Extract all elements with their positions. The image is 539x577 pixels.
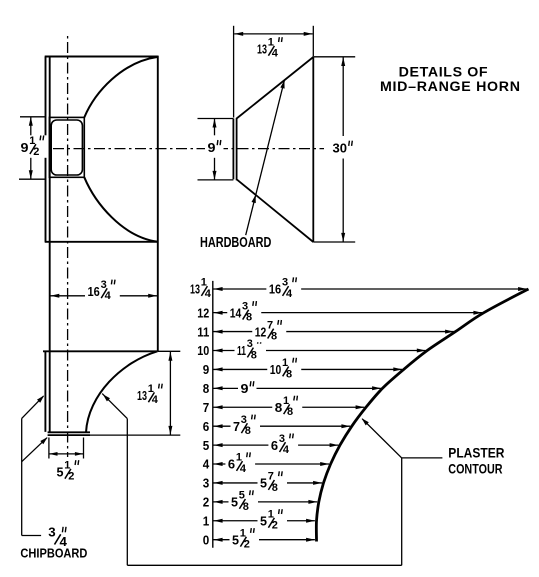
chipboard leader vertical xyxy=(21,418,23,535)
svg-text:11: 11 xyxy=(237,343,246,358)
svg-text:4: 4 xyxy=(272,48,279,60)
plaster leader diag to contour curve xyxy=(362,419,402,458)
contour right arrow at 12 xyxy=(473,311,482,315)
chipboard leader diagonal lower xyxy=(22,438,47,462)
contour label at 7 xyxy=(272,395,302,418)
hardboard leader arrow at top slant xyxy=(280,80,284,88)
throat inner rounded rectangle xyxy=(51,120,82,175)
contour right arrow at 10 xyxy=(417,349,426,353)
contour label at 11 xyxy=(252,320,286,343)
contour right arrow at 3 xyxy=(313,481,322,485)
dim 9 arrow down xyxy=(213,171,217,180)
svg-text:1: 1 xyxy=(236,452,242,464)
svg-text:4: 4 xyxy=(105,290,112,302)
contour line at 0 xyxy=(213,539,315,541)
label 30 inch xyxy=(330,136,355,159)
contour line at 13.25 xyxy=(213,288,527,290)
svg-text:10: 10 xyxy=(197,343,209,358)
dim 16-3/4 arrow right xyxy=(148,294,157,298)
dim 9 extension bottom xyxy=(198,179,234,181)
label 9 inch xyxy=(205,135,224,158)
chipboard leader horizontal xyxy=(22,535,41,537)
contour left arrow at 12 xyxy=(214,311,223,315)
svg-text:5: 5 xyxy=(260,513,268,528)
svg-text:8: 8 xyxy=(243,501,249,513)
contour label at 2 xyxy=(229,490,259,513)
dim 9 extension top xyxy=(198,118,234,120)
contour label at 6 xyxy=(231,414,261,437)
contour label at 4 xyxy=(225,452,255,475)
svg-text:6: 6 xyxy=(228,457,235,472)
svg-text:1: 1 xyxy=(240,527,246,539)
contour left arrow at 13.25 xyxy=(214,287,223,291)
svg-text:2: 2 xyxy=(68,471,74,483)
dim 5-1/2 extension left xyxy=(48,438,50,459)
contour line at 8 xyxy=(213,387,381,389)
cross-section horn curve xyxy=(86,351,157,432)
dim 13-1/4 lower arrow down xyxy=(168,426,172,435)
svg-text:11: 11 xyxy=(197,324,210,339)
contour line at 11 xyxy=(213,331,454,333)
svg-text:8: 8 xyxy=(271,330,277,342)
hardboard leader line xyxy=(246,80,285,235)
svg-text:9: 9 xyxy=(203,362,210,377)
plaster leader right vertical xyxy=(401,458,403,565)
lower box outer left edge xyxy=(44,351,46,432)
plaster leader bottom horizontal xyxy=(127,564,401,566)
contour label at 10 xyxy=(235,339,267,362)
svg-text:1: 1 xyxy=(64,460,70,472)
svg-text:13: 13 xyxy=(137,388,147,403)
contour label at 3 xyxy=(258,471,288,494)
dim 16-3/4 dimension line xyxy=(50,295,157,297)
trapezoid top slant edge xyxy=(237,57,314,119)
dim 30 arrow down xyxy=(341,233,345,242)
plaster leader diag from cross-section curve xyxy=(102,394,127,419)
dim 30 extension top xyxy=(313,56,355,58)
svg-text:1: 1 xyxy=(268,37,274,49)
dim 5-1/2 arrow left xyxy=(49,452,58,456)
svg-text:2: 2 xyxy=(203,495,210,510)
dim 9 arrow up xyxy=(213,119,217,128)
svg-text:4: 4 xyxy=(152,394,159,406)
contour left arrow at 3 xyxy=(214,481,223,485)
vertical centerline xyxy=(67,36,69,457)
front view outer left edge (chipboard, outer line) xyxy=(45,57,47,242)
svg-text:3: 3 xyxy=(247,338,253,350)
contour line at 2 xyxy=(213,501,317,503)
dim 5-1/2 arrow right xyxy=(75,452,84,456)
svg-text:8: 8 xyxy=(287,406,293,418)
contour line at 3 xyxy=(213,482,322,484)
contour right arrow at 0 xyxy=(306,538,315,542)
svg-text:1: 1 xyxy=(29,135,35,147)
svg-text:5: 5 xyxy=(260,476,268,491)
svg-text:1: 1 xyxy=(283,395,289,407)
svg-text:3: 3 xyxy=(241,414,247,426)
svg-text:16: 16 xyxy=(88,284,100,299)
svg-text:3: 3 xyxy=(282,277,288,289)
contour line at 6 xyxy=(213,425,350,427)
contour label at 8 xyxy=(238,377,257,400)
trapezoid throat edge inner line xyxy=(236,118,238,180)
svg-text:4: 4 xyxy=(286,288,293,300)
front view bottom edge xyxy=(45,241,158,243)
lower box top edge xyxy=(43,350,158,352)
chipboard leader arrow lower xyxy=(40,437,47,444)
trapezoid throat edge outer line xyxy=(232,119,234,180)
front view top edge xyxy=(45,56,158,58)
label 9-1/2 inch xyxy=(18,135,49,158)
contour right arrow at 5 xyxy=(330,443,339,447)
svg-text:14: 14 xyxy=(230,305,242,320)
contour left arrow at 1 xyxy=(214,519,223,523)
dim 13-1/4 arrow right xyxy=(304,32,313,36)
svg-text:9: 9 xyxy=(208,140,216,155)
svg-text:8: 8 xyxy=(245,425,251,437)
contour left arrow at 10 xyxy=(214,349,223,353)
contour left arrow at 11 xyxy=(214,330,223,334)
contour line at 5 xyxy=(213,444,339,446)
dim 9-1/2 dimension line xyxy=(30,117,32,179)
svg-text:5: 5 xyxy=(239,490,245,502)
svg-text:7: 7 xyxy=(203,400,210,415)
svg-text:4: 4 xyxy=(205,288,212,300)
svg-text:5: 5 xyxy=(231,495,239,510)
chipboard leader diagonal upper xyxy=(22,396,44,418)
dim 9 dimension line xyxy=(214,119,216,180)
contour label at 5 xyxy=(268,433,298,456)
contour line at 7 xyxy=(213,406,365,408)
dim 13-1/4 dimension line xyxy=(234,33,313,35)
dim 13-1/4 lower: top extension xyxy=(158,350,181,352)
svg-text:8: 8 xyxy=(203,381,210,396)
svg-text:5: 5 xyxy=(232,532,240,547)
throat plate top line xyxy=(48,431,90,433)
label 16-3/4 inch xyxy=(85,279,120,302)
dim 30 extension bottom xyxy=(313,241,355,243)
svg-text:0: 0 xyxy=(203,532,210,547)
contour left arrow at 7 xyxy=(214,405,223,409)
throat plate bottom line xyxy=(48,434,90,436)
svg-text:3: 3 xyxy=(242,300,248,312)
svg-text:CONTOUR: CONTOUR xyxy=(448,461,502,476)
dim 9-1/2 extension line bottom xyxy=(19,178,45,180)
contour label at 12 xyxy=(227,301,261,324)
contour right arrow at 9 xyxy=(393,367,402,371)
svg-text:3: 3 xyxy=(279,433,285,445)
dim 13-1/4 lower arrow up xyxy=(168,352,172,361)
svg-text:CHIPBOARD: CHIPBOARD xyxy=(20,547,87,561)
plaster leader left vertical xyxy=(126,419,128,566)
plaster leader to label xyxy=(402,457,443,459)
svg-text:8: 8 xyxy=(246,312,252,324)
svg-text:2: 2 xyxy=(272,520,278,532)
hardboard leader arrow at bottom slant xyxy=(252,195,256,203)
svg-text:8: 8 xyxy=(251,349,257,361)
svg-text:HARDBOARD: HARDBOARD xyxy=(200,235,271,251)
svg-text:12: 12 xyxy=(255,324,267,339)
contour left arrow at 5 xyxy=(214,443,223,447)
svg-text:7: 7 xyxy=(268,471,274,483)
plaster contour curve xyxy=(316,289,528,542)
dim 30 arrow up xyxy=(341,57,345,66)
dim 16-3/4 arrow left xyxy=(50,294,59,298)
horizontal centerline xyxy=(53,148,324,150)
front view right edge (continuous to lower box) xyxy=(157,56,159,352)
contour right arrow at 1 xyxy=(306,519,315,523)
contour line at 12 xyxy=(213,312,482,314)
contour right arrow at 6 xyxy=(341,424,350,428)
contour right arrow at 2 xyxy=(308,500,317,504)
svg-text:5: 5 xyxy=(57,465,65,480)
contour line at 9 xyxy=(213,368,402,370)
svg-text:1: 1 xyxy=(201,277,207,289)
dim 9-1/2 arrow up xyxy=(29,117,33,126)
contour vertical axis xyxy=(212,281,214,548)
dim 13-1/4 extension right xyxy=(312,26,314,57)
contour left arrow at 0 xyxy=(214,538,223,542)
svg-text:3: 3 xyxy=(203,476,210,491)
svg-text:12: 12 xyxy=(197,305,209,320)
dim 13-1/4 lower dimension line xyxy=(169,352,171,435)
contour line at 10 xyxy=(213,350,426,352)
contour left arrow at 8 xyxy=(214,386,223,390)
trapezoid mouth edge (right) xyxy=(312,57,314,242)
svg-text:8: 8 xyxy=(275,400,283,415)
svg-text:13: 13 xyxy=(257,42,267,57)
contour right arrow at 7 xyxy=(356,405,365,409)
contour line at 4 xyxy=(213,463,329,465)
dim 13-1/4 lower: bottom extension xyxy=(90,434,180,436)
svg-text:9: 9 xyxy=(21,140,29,155)
contour label at 0 xyxy=(230,528,260,551)
svg-text:16: 16 xyxy=(269,282,281,297)
svg-text:PLASTER: PLASTER xyxy=(448,446,504,461)
dim 9-1/2 extension line top xyxy=(20,116,45,118)
contour left arrow at 4 xyxy=(214,462,223,466)
svg-text:4: 4 xyxy=(283,444,290,456)
chipboard leader arrow upper xyxy=(37,395,44,402)
svg-text:1: 1 xyxy=(148,383,154,395)
svg-text:7: 7 xyxy=(267,319,273,331)
svg-text:MID–RANGE HORN: MID–RANGE HORN xyxy=(380,79,520,95)
contour label at 9 xyxy=(267,358,301,381)
front view inner left edge (continuous to lower box) xyxy=(49,57,51,432)
svg-text:13: 13 xyxy=(190,282,200,297)
throat outer rectangle xyxy=(49,117,84,177)
svg-text:6: 6 xyxy=(203,419,210,434)
svg-text:2: 2 xyxy=(244,539,250,551)
svg-text:30: 30 xyxy=(333,141,348,156)
svg-text:5: 5 xyxy=(203,438,210,453)
svg-text:3: 3 xyxy=(48,524,55,539)
contour right arrow at 4 xyxy=(320,462,329,466)
dim 13-1/4 extension left xyxy=(233,26,235,118)
trapezoid bottom slant edge xyxy=(237,179,314,242)
horn mouth curve lower xyxy=(84,177,158,242)
svg-text:2: 2 xyxy=(33,146,39,158)
horn mouth curve upper xyxy=(84,57,158,118)
svg-text:7: 7 xyxy=(233,419,240,434)
dim 13-1/4 arrow left xyxy=(234,32,243,36)
contour left arrow at 6 xyxy=(214,424,223,428)
svg-text:1: 1 xyxy=(203,513,210,528)
svg-text:8: 8 xyxy=(286,368,292,380)
plaster leader arrow at contour curve xyxy=(362,418,369,425)
dim 30 dimension line xyxy=(342,57,344,242)
contour label at 1 xyxy=(258,509,288,531)
contour left arrow at 9 xyxy=(214,367,223,371)
svg-text:6: 6 xyxy=(271,438,278,453)
dim 9-1/2 arrow down xyxy=(29,170,33,179)
contour right arrow at 8 xyxy=(372,386,381,390)
svg-text:1: 1 xyxy=(282,357,288,369)
svg-text:9: 9 xyxy=(241,381,249,396)
svg-text:4: 4 xyxy=(203,457,210,472)
svg-text:10: 10 xyxy=(270,362,282,377)
dim 5-1/2 extension right xyxy=(83,438,85,459)
svg-text:3: 3 xyxy=(101,279,107,291)
plaster leader arrow at cross-section curve xyxy=(103,394,110,401)
svg-text:4: 4 xyxy=(240,463,247,475)
svg-text:8: 8 xyxy=(272,482,278,494)
contour left arrow at 2 xyxy=(214,500,223,504)
contour right arrow at 13.25 xyxy=(518,287,527,291)
contour line at 1 xyxy=(213,520,315,522)
contour right arrow at 11 xyxy=(445,330,454,334)
svg-text:1: 1 xyxy=(268,508,274,520)
dim 5-1/2 dimension line xyxy=(49,453,83,455)
contour label at 13.25 xyxy=(266,277,301,300)
